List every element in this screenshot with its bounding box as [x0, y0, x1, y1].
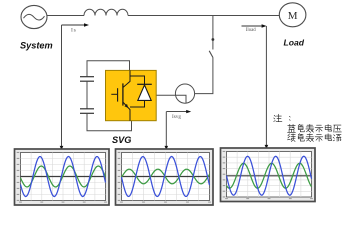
- switch blade S1: [209, 51, 213, 58]
- oscilloscope scope 2 (Isvg): [116, 149, 214, 205]
- current transformer CT: [175, 84, 194, 103]
- svg-text:Iload: Iload: [246, 28, 256, 33]
- wire Is probe down to scope 1: [61, 25, 63, 147]
- wire Iload probe down to scope 3: [265, 26, 267, 146]
- svg-text:Is: Is: [71, 28, 77, 34]
- wire main to switch: [212, 16, 214, 50]
- note heading 注：: [274, 114, 291, 122]
- diode D1: [137, 84, 152, 100]
- svg-text:M: M: [288, 10, 298, 22]
- inductor L1: [84, 9, 128, 15]
- SVG converter box: [106, 70, 157, 120]
- wire IGBT collector to diode cathode: [130, 76, 145, 84]
- wire inductor to motor: [128, 15, 279, 17]
- switch contact dot: [212, 38, 215, 41]
- arrowhead into scope 1: [60, 146, 64, 150]
- oscilloscope scope 1 (Is): [15, 149, 110, 205]
- wire between capacitors: [86, 81, 88, 109]
- IGBT Q1 collector lead: [123, 70, 130, 87]
- svg-text:Isvg: Isvg: [172, 114, 181, 120]
- current probe arrow Is: [62, 23, 90, 26]
- wire Isvg probe down to scope 2: [165, 112, 167, 147]
- IGBT Q1 gate lead: [111, 93, 117, 95]
- arrowhead into scope 2: [165, 146, 169, 150]
- svg-text:System: System: [20, 41, 53, 51]
- motor M (Load): [279, 3, 306, 27]
- current probe arrow Iload: [242, 24, 267, 27]
- note line 2: green means current: [288, 134, 341, 142]
- wire diode anode to emitter: [130, 100, 145, 107]
- svg-text:Load: Load: [284, 37, 305, 47]
- wire cap top to SVG box top: [87, 61, 130, 76]
- wire cap bottom to SVG box bottom: [87, 113, 132, 131]
- capacitor C2: [80, 109, 94, 114]
- IGBT Q1 emitter with arrow: [123, 102, 130, 120]
- oscilloscope scope 3 (Iload): [221, 148, 316, 202]
- AC source (System): [21, 5, 47, 28]
- note line 1: blue means voltage: [288, 124, 342, 132]
- IGBT Q1 gate bar: [117, 88, 119, 101]
- current probe arrow Isvg: [166, 110, 191, 113]
- wire switch to CT: [195, 58, 213, 94]
- wire source to inductor: [47, 15, 84, 17]
- IGBT Q1 body bar: [122, 83, 124, 105]
- svg-text:SVG: SVG: [112, 135, 131, 145]
- wire SVG box to CT with hook: [156, 95, 186, 103]
- capacitor C1: [80, 77, 94, 82]
- arrowhead into scope 3: [265, 145, 269, 149]
